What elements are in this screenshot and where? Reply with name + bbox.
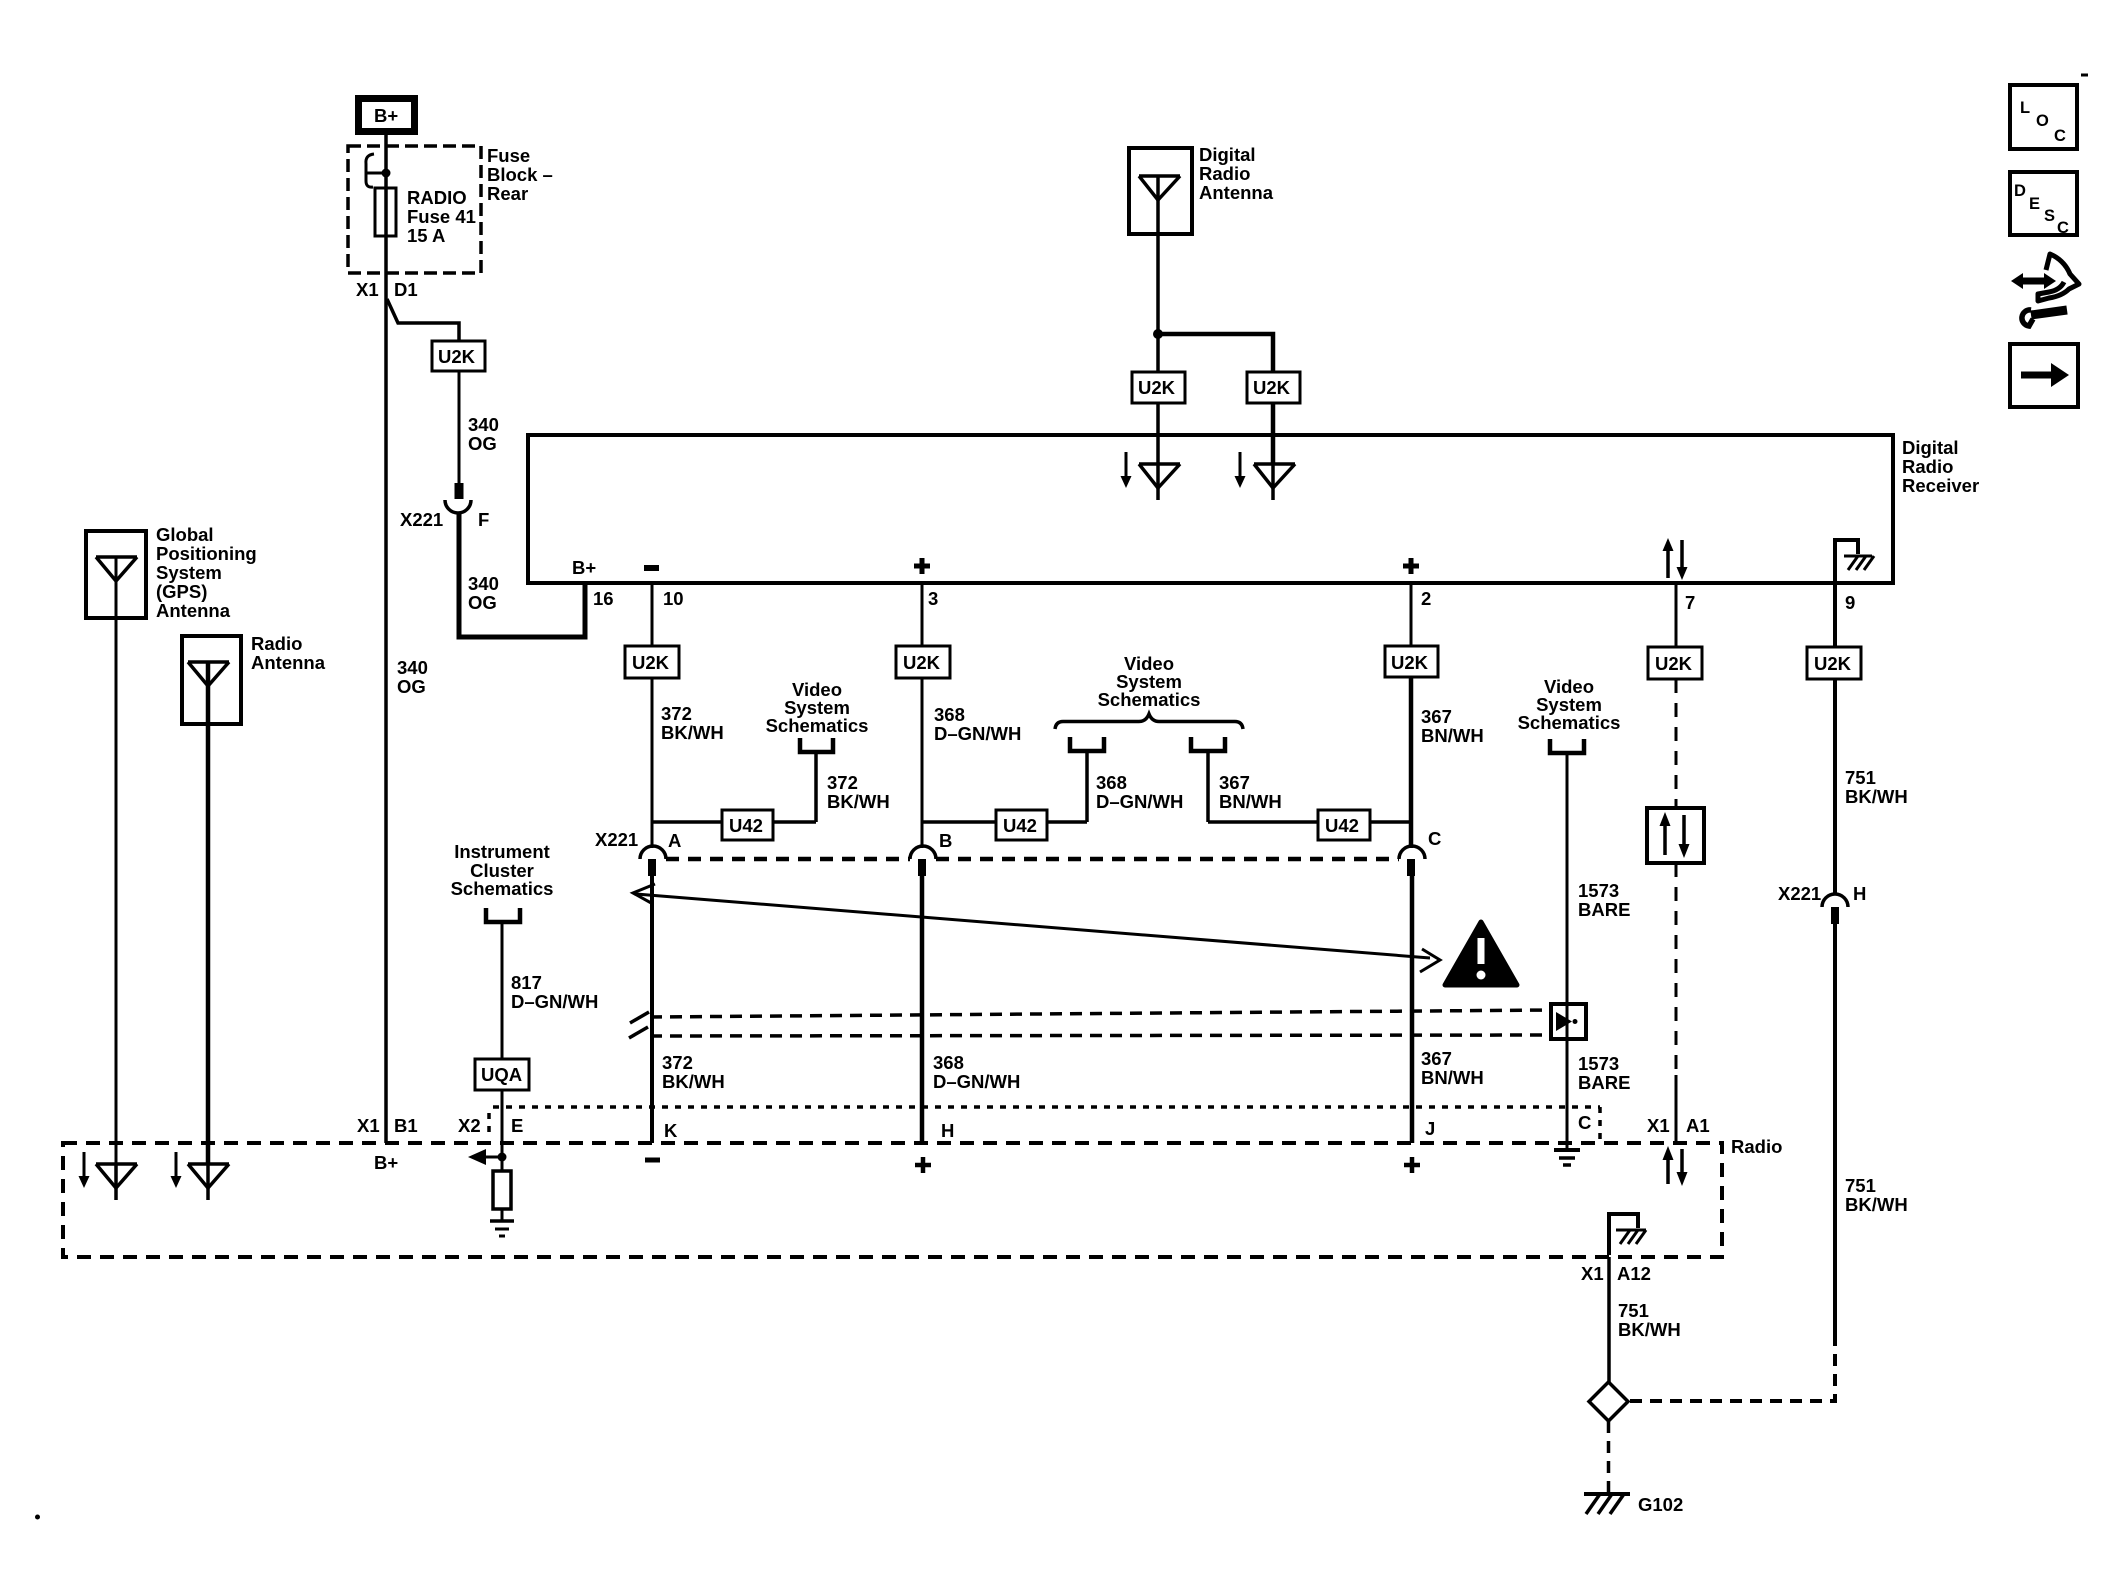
svg-text:BK/WH: BK/WH xyxy=(1845,786,1908,807)
svg-text:X1: X1 xyxy=(357,1115,380,1136)
wire 368 D-GN/WH pin 3 to X221 B xyxy=(922,678,1021,848)
X221 harness connector dashed line xyxy=(666,857,1399,862)
svg-text:817: 817 xyxy=(511,972,542,993)
connector X221 pin A xyxy=(595,829,681,876)
wire 340 OG X221 F to receiver pin 16 xyxy=(459,512,585,637)
receiver pin B+ label xyxy=(572,557,614,609)
svg-text:OG: OG xyxy=(397,676,426,697)
wire 751 BK/WH A12 to splice xyxy=(1609,1257,1681,1382)
wire 751 dashed to splice xyxy=(1628,1334,1835,1401)
wire branch B to U42 xyxy=(922,820,996,824)
svg-text:(GPS): (GPS) xyxy=(156,581,207,602)
receiver pin 2 plus label xyxy=(1403,558,1431,609)
svg-text:Radio: Radio xyxy=(1902,456,1953,477)
page mark top right xyxy=(2081,74,2088,77)
svg-text:G102: G102 xyxy=(1638,1494,1683,1515)
svg-text:BK/WH: BK/WH xyxy=(1618,1319,1681,1340)
wire GPS antenna coax xyxy=(115,557,118,1164)
svg-text:J: J xyxy=(1425,1118,1435,1139)
svg-text:U42: U42 xyxy=(1003,815,1037,836)
svg-text:D–GN/WH: D–GN/WH xyxy=(511,991,598,1012)
option code UQA box xyxy=(475,1059,529,1090)
wire radio antenna coax xyxy=(206,662,211,1164)
wire 372 BK/WH schematic stub xyxy=(773,752,890,822)
svg-text:Schematics: Schematics xyxy=(1098,689,1201,710)
svg-text:U2K: U2K xyxy=(903,652,941,673)
svg-text:Receiver: Receiver xyxy=(1902,475,1979,496)
svg-text:Fuse: Fuse xyxy=(487,145,530,166)
svg-text:K: K xyxy=(664,1120,678,1141)
connector X221 pin F xyxy=(400,483,489,530)
svg-text:Digital: Digital xyxy=(1902,437,1959,458)
svg-text:X2: X2 xyxy=(458,1115,481,1136)
svg-text:372: 372 xyxy=(661,703,692,724)
wire into receiver right antenna input xyxy=(1271,403,1276,464)
svg-text:372: 372 xyxy=(827,772,858,793)
radio internal ground bracket pin A12 xyxy=(1609,1214,1646,1255)
receiver pin 7 serial data symbol xyxy=(1663,538,1696,613)
svg-text:Schematics: Schematics xyxy=(451,878,554,899)
transfer navigation box xyxy=(2010,344,2078,407)
svg-text:L: L xyxy=(2020,99,2030,117)
radio pin H label xyxy=(915,1120,954,1173)
wire 372 BK/WH pin 10 to X221 A xyxy=(652,678,724,848)
svg-text:BK/WH: BK/WH xyxy=(662,1071,725,1092)
svg-text:Antenna: Antenna xyxy=(156,600,231,621)
ground 1573 at radio pin C xyxy=(1554,1150,1580,1165)
svg-text:367: 367 xyxy=(1421,1048,1452,1069)
svg-text:D1: D1 xyxy=(394,279,418,300)
svg-text:UQA: UQA xyxy=(481,1064,522,1085)
twisted pair squiggle xyxy=(629,1012,649,1038)
svg-text:751: 751 xyxy=(1618,1300,1649,1321)
wire 367 BN/WH pin 2 to X221 C xyxy=(1411,677,1484,848)
svg-text:BARE: BARE xyxy=(1578,1072,1630,1093)
video system schematics reference 2 brace xyxy=(1055,653,1243,751)
svg-text:U2K: U2K xyxy=(438,346,476,367)
svg-text:U42: U42 xyxy=(729,815,763,836)
svg-text:X1: X1 xyxy=(1581,1263,1604,1284)
svg-text:A12: A12 xyxy=(1617,1263,1651,1284)
svg-text:U42: U42 xyxy=(1325,815,1359,836)
svg-text:751: 751 xyxy=(1845,1175,1876,1196)
svg-text:340: 340 xyxy=(468,573,499,594)
svg-text:BN/WH: BN/WH xyxy=(1421,725,1484,746)
svg-text:Fuse 41: Fuse 41 xyxy=(407,206,476,227)
svg-text:D–GN/WH: D–GN/WH xyxy=(933,1071,1020,1092)
svg-text:A: A xyxy=(668,830,681,851)
wire receiver pin 3 stub xyxy=(921,583,924,646)
receiver internal antenna symbol left xyxy=(1121,452,1181,500)
svg-text:B: B xyxy=(939,830,952,851)
wire UQA to radio pin E xyxy=(458,1090,523,1157)
fuse RADIO Fuse 41 15 A xyxy=(375,187,476,246)
wire branch fuse to U2K xyxy=(387,299,459,341)
wire label 340 OG main feed xyxy=(397,657,428,697)
drain wire arrow box xyxy=(1551,1004,1586,1039)
receiver pin 3 plus label xyxy=(914,558,938,609)
svg-text:X1: X1 xyxy=(1647,1115,1670,1136)
digital radio receiver box xyxy=(528,435,1979,583)
svg-text:1573: 1573 xyxy=(1578,1053,1619,1074)
radio internal antenna feed branch xyxy=(468,1149,507,1165)
wire receiver pin 9 stub xyxy=(1833,583,1837,647)
svg-text:BARE: BARE xyxy=(1578,899,1630,920)
svg-text:10: 10 xyxy=(663,588,684,609)
svg-text:Radio: Radio xyxy=(251,633,302,654)
callout pointer line to warning xyxy=(633,884,1440,972)
option code U2K box (fuse branch) xyxy=(432,341,485,371)
junction antenna lead split xyxy=(1153,329,1163,339)
wire receiver pin 2 stub xyxy=(1410,583,1413,646)
svg-text:BK/WH: BK/WH xyxy=(827,791,890,812)
fuse block rear dashed outline xyxy=(348,145,553,273)
ground G102 xyxy=(1584,1494,1683,1515)
wire antenna lead xyxy=(1156,176,1160,372)
page mark bottom left xyxy=(35,1515,40,1520)
svg-text:BK/WH: BK/WH xyxy=(661,722,724,743)
svg-text:Radio: Radio xyxy=(1731,1136,1782,1157)
svg-text:Antenna: Antenna xyxy=(251,652,326,673)
svg-text:F: F xyxy=(478,509,489,530)
svg-text:U2K: U2K xyxy=(1138,377,1176,398)
svg-text:S: S xyxy=(2044,207,2055,225)
svg-text:U2K: U2K xyxy=(1814,653,1852,674)
svg-text:D–GN/WH: D–GN/WH xyxy=(1096,791,1183,812)
GPS antenna component box xyxy=(86,524,257,621)
wire 817 D-GN/WH to UQA xyxy=(502,922,598,1059)
connector X1 pin D1 labels xyxy=(356,279,418,300)
wire receiver pin 7 stub xyxy=(1675,583,1678,647)
wire pin 7 dashed data link upper xyxy=(1675,679,1678,808)
radio pin C label xyxy=(1578,1112,1591,1133)
wire receiver pin 10 stub xyxy=(651,583,654,646)
svg-text:2: 2 xyxy=(1421,588,1431,609)
svg-text:Radio: Radio xyxy=(1199,163,1250,184)
wire antenna branch right xyxy=(1158,334,1273,372)
radio component dashed box xyxy=(63,1136,1782,1257)
svg-text:E: E xyxy=(511,1115,523,1136)
wire B+ feed to Radio pin B1 xyxy=(384,135,388,1143)
svg-text:372: 372 xyxy=(662,1052,693,1073)
svg-text:H: H xyxy=(1853,883,1866,904)
wire 367 BN/WH X221 C to radio pin J xyxy=(1412,876,1484,1143)
option code U42 box (B) xyxy=(996,810,1047,840)
digital radio antenna component box xyxy=(1129,144,1274,234)
wire 1573 BARE drain xyxy=(1567,753,1630,1150)
DESC navigation box xyxy=(2010,172,2077,237)
GPS antenna termination inside radio xyxy=(79,1152,138,1200)
svg-text:16: 16 xyxy=(593,588,614,609)
option code U2K box (antenna right) xyxy=(1247,372,1300,403)
svg-text:Global: Global xyxy=(156,524,214,545)
svg-text:C: C xyxy=(1428,828,1441,849)
radio antenna component box xyxy=(182,633,326,724)
connector X221 pin C xyxy=(1399,828,1441,876)
fuse element curl xyxy=(366,154,391,187)
svg-text:C: C xyxy=(2054,127,2066,145)
svg-text:1573: 1573 xyxy=(1578,880,1619,901)
ground radio internal xyxy=(490,1221,514,1236)
svg-text:7: 7 xyxy=(1685,592,1695,613)
wire U42 C to pin 2 wire xyxy=(1370,820,1411,824)
wire 340 OG U2K to X221 F xyxy=(459,371,499,483)
svg-text:Rear: Rear xyxy=(487,183,528,204)
svg-text:U2K: U2K xyxy=(1391,652,1429,673)
svg-text:BN/WH: BN/WH xyxy=(1219,791,1282,812)
svg-text:X221: X221 xyxy=(595,829,638,850)
svg-text:340: 340 xyxy=(397,657,428,678)
svg-text:E: E xyxy=(2029,195,2040,213)
option code U42 box (C) xyxy=(1318,810,1370,840)
svg-text:BK/WH: BK/WH xyxy=(1845,1194,1908,1215)
option code U2K box (pin 9) xyxy=(1807,647,1861,679)
connector X221 pin H xyxy=(1778,883,1866,924)
svg-text:368: 368 xyxy=(933,1052,964,1073)
svg-text:X221: X221 xyxy=(400,509,443,530)
svg-text:Positioning: Positioning xyxy=(156,543,257,564)
X2 connector dotted outline xyxy=(489,1107,1600,1143)
svg-text:X1: X1 xyxy=(356,279,379,300)
svg-text:15 A: 15 A xyxy=(407,225,445,246)
svg-text:B+: B+ xyxy=(374,105,398,126)
svg-text:BN/WH: BN/WH xyxy=(1421,1067,1484,1088)
radio pin K label xyxy=(645,1120,678,1160)
svg-text:Digital: Digital xyxy=(1199,144,1256,165)
svg-text:RADIO: RADIO xyxy=(407,187,467,208)
radio internal serial data arrows xyxy=(1663,1146,1688,1186)
svg-text:9: 9 xyxy=(1845,592,1855,613)
wire 372 BK/WH X221 A to radio pin K xyxy=(652,876,725,1143)
wire pin 7 dashed data link lower xyxy=(1675,863,1678,1143)
svg-text:Block –: Block – xyxy=(487,164,553,185)
svg-text:OG: OG xyxy=(468,592,497,613)
serial data two-way box xyxy=(1647,808,1704,863)
svg-text:Antenna: Antenna xyxy=(1199,182,1274,203)
resistor element radio pin E xyxy=(493,1157,511,1221)
wire 751 BK/WH X221 H down xyxy=(1835,924,1908,1334)
wire 368 D-GN/WH X221 B to radio pin H xyxy=(922,876,1020,1143)
radio pin X1 B1 labels xyxy=(357,1115,418,1173)
option code U2K box (pin 7) xyxy=(1648,647,1702,679)
svg-text:Schematics: Schematics xyxy=(1518,712,1621,733)
wire 367 BN/WH schematic stub xyxy=(1208,751,1318,822)
video system schematics reference 3 xyxy=(1518,676,1621,753)
svg-text:D: D xyxy=(2014,182,2026,200)
twisted pair dashed loop upper xyxy=(650,1010,1551,1017)
warning triangle symbol xyxy=(1445,922,1517,985)
svg-text:B+: B+ xyxy=(374,1152,398,1173)
svg-text:3: 3 xyxy=(928,588,938,609)
option code U2K box (antenna left) xyxy=(1132,372,1185,403)
receiver pin 9 internal ground xyxy=(1835,540,1874,613)
svg-text:367: 367 xyxy=(1421,706,1452,727)
LOC navigation box xyxy=(2010,85,2077,149)
svg-text:367: 367 xyxy=(1219,772,1250,793)
svg-text:X221: X221 xyxy=(1778,883,1821,904)
radio pin J label xyxy=(1404,1118,1435,1173)
receiver pin 10 minus label xyxy=(644,568,684,609)
svg-text:368: 368 xyxy=(1096,772,1127,793)
radio pin X1 A12 labels xyxy=(1581,1263,1651,1284)
battery feed B+ symbol xyxy=(359,99,415,132)
svg-text:751: 751 xyxy=(1845,767,1876,788)
radio pin X1 A1 labels xyxy=(1647,1115,1710,1136)
svg-text:D–GN/WH: D–GN/WH xyxy=(934,723,1021,744)
option code U2K box (pin 3) xyxy=(896,646,950,678)
radio antenna termination inside radio xyxy=(171,1152,230,1200)
svg-text:340: 340 xyxy=(468,414,499,435)
svg-text:U2K: U2K xyxy=(1655,653,1693,674)
svg-text:H: H xyxy=(941,1120,954,1141)
diagnostic icon arrows and wrench xyxy=(2011,254,2079,326)
svg-text:A1: A1 xyxy=(1686,1115,1710,1136)
instrument cluster schematics reference xyxy=(451,841,554,922)
receiver internal antenna symbol right xyxy=(1235,452,1296,500)
twisted pair dashed loop lower xyxy=(650,1035,1551,1036)
svg-text:Schematics: Schematics xyxy=(766,715,869,736)
svg-text:O: O xyxy=(2036,112,2049,130)
svg-text:OG: OG xyxy=(468,433,497,454)
wire into receiver left antenna input xyxy=(1156,403,1160,464)
wire branch A to U42 xyxy=(652,820,722,824)
splice diamond xyxy=(1589,1382,1628,1421)
option code U42 box (A) xyxy=(722,810,773,840)
svg-text:U2K: U2K xyxy=(1253,377,1291,398)
svg-text:C: C xyxy=(2057,219,2069,237)
svg-text:C: C xyxy=(1578,1112,1591,1133)
svg-text:U2K: U2K xyxy=(632,652,670,673)
connector X221 pin B xyxy=(910,830,952,876)
wire splice to ground G102 xyxy=(1607,1421,1611,1494)
svg-text:Instrument: Instrument xyxy=(454,841,550,862)
option code U2K box (pin 10) xyxy=(625,646,679,678)
svg-text:368: 368 xyxy=(934,704,965,725)
wire U42 B to schematic stub xyxy=(1047,752,1183,822)
video system schematics reference 1 xyxy=(766,679,869,752)
wire 751 BK/WH pin 9 to X221 H xyxy=(1835,679,1908,895)
option code U2K box (pin 2) xyxy=(1385,646,1438,677)
svg-text:System: System xyxy=(156,562,222,583)
svg-text:B1: B1 xyxy=(394,1115,418,1136)
svg-text:B+: B+ xyxy=(572,557,596,578)
